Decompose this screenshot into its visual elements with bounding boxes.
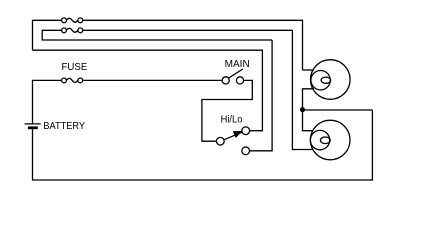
- svg-text:Hi/Lo: Hi/Lo: [221, 114, 243, 126]
- wire: Hi throw riser to left rail: [33, 50, 263, 131]
- battery BT1 plates: [25, 123, 41, 125]
- junction node: [300, 107, 305, 112]
- wire: battery positive to fuse to MAIN switch: [33, 80, 62, 123]
- wire: upper lamp return down to junction: [303, 89, 315, 131]
- wire: battery negative to bottom return: [33, 110, 373, 180]
- wire: upper lamp feed from hi fuse: [303, 69, 315, 71]
- fuse F3 (FUSE): [62, 78, 67, 83]
- lamp L1 (high beam headlamp): [311, 60, 351, 100]
- wire: junction to right return riser: [303, 109, 373, 111]
- wire: Lo throw riser: [250, 40, 273, 151]
- svg-text:MAIN: MAIN: [225, 58, 250, 70]
- wire: left rail joining hi-beam feed wires: [83, 20, 303, 70]
- lamp L2 (low beam headlamp): [310, 120, 350, 160]
- switch MAIN: [222, 77, 229, 84]
- fuse F1 (hi-beam wire): [62, 18, 67, 23]
- wire: lo-beam feed (top second wire): [42, 30, 272, 40]
- wire: lower lamp return: [292, 30, 311, 149]
- svg-text:FUSE: FUSE: [62, 61, 88, 73]
- fuse F2 (lo-beam wire): [62, 28, 67, 33]
- wire: MAIN switch output to Hi/Lo common: [202, 80, 252, 141]
- svg-text:BATTERY: BATTERY: [43, 120, 85, 132]
- switch Hi/Lo: [216, 137, 224, 145]
